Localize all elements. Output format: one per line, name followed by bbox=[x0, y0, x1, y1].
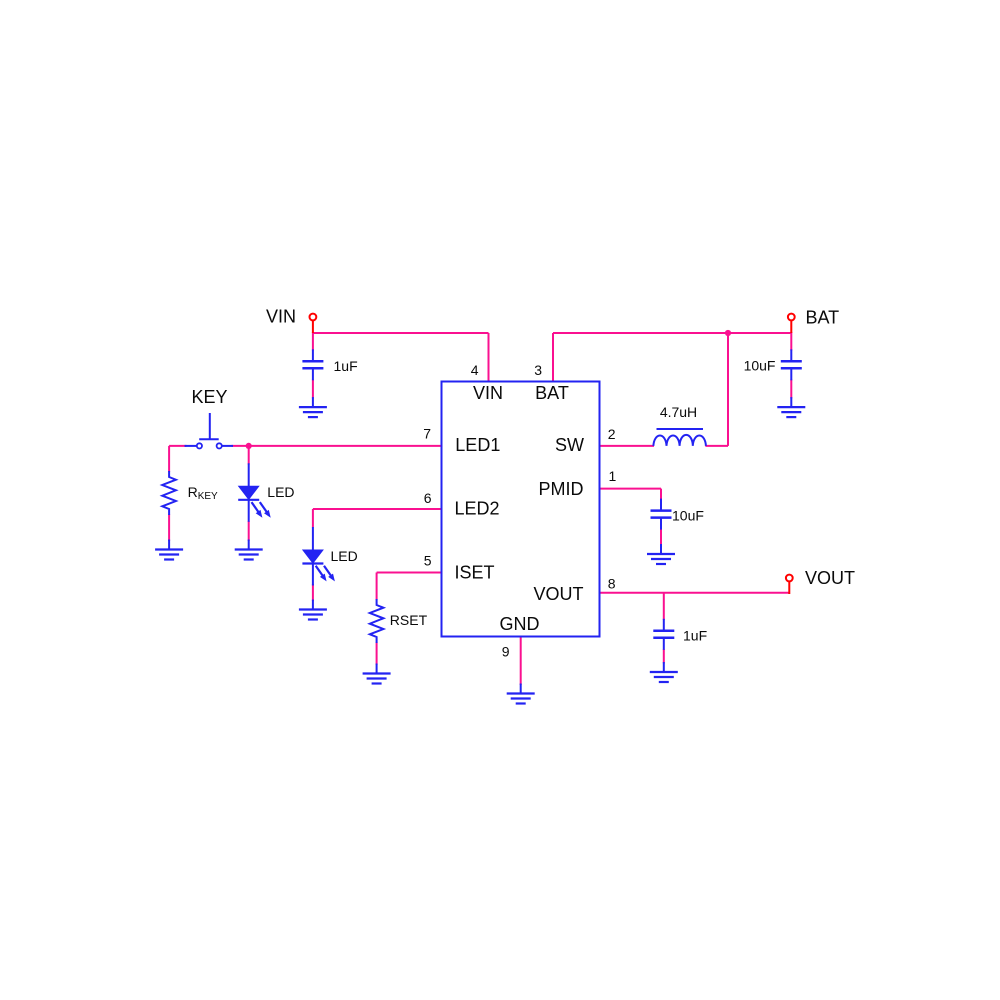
wire BAT junction to inductor (vertical) bbox=[727, 333, 729, 446]
wire C1 to ground (vertical) bbox=[312, 380, 314, 399]
svg-text:2: 2 bbox=[608, 426, 616, 442]
wire GND pin 9 vertical bbox=[520, 637, 522, 686]
ground (C4) bbox=[650, 662, 678, 682]
wire BAT horizontal bbox=[553, 332, 791, 334]
wire LED2 pin 6 horizontal bbox=[313, 508, 442, 510]
LED D1 bbox=[238, 463, 271, 522]
wire pin 6 to LED D2 (vertical) bbox=[312, 509, 314, 528]
junction node at KEY/LED1 bbox=[246, 443, 252, 449]
wire KEY to RKEY (vertical) bbox=[168, 446, 170, 472]
wire C4 to ground (vertical) bbox=[663, 649, 665, 664]
wire PMID to C3 (vertical) bbox=[660, 489, 662, 500]
svg-text:BAT: BAT bbox=[535, 383, 569, 403]
resistor RSET bbox=[370, 599, 384, 643]
svg-text:BAT: BAT bbox=[806, 308, 840, 328]
svg-text:LED2: LED2 bbox=[455, 499, 500, 519]
wire pin 4 vertical bbox=[488, 333, 490, 382]
wire VIN to C1 (vertical) bbox=[312, 332, 314, 351]
svg-text:LED: LED bbox=[331, 548, 358, 564]
LED D2 bbox=[302, 527, 335, 586]
op-amp U1 charger IC body bbox=[442, 382, 600, 637]
capacitor C3 10uF (PMID) bbox=[651, 499, 672, 530]
ground (RKEY) bbox=[155, 540, 183, 560]
ground (D2) bbox=[299, 600, 327, 620]
svg-text:PMID: PMID bbox=[539, 479, 584, 499]
node BAT terminal bbox=[788, 314, 795, 333]
svg-text:5: 5 bbox=[424, 553, 432, 569]
switch KEY pushbutton bbox=[185, 413, 234, 449]
svg-text:LED: LED bbox=[267, 484, 294, 500]
svg-text:6: 6 bbox=[424, 490, 432, 506]
svg-text:VIN: VIN bbox=[266, 306, 296, 326]
svg-text:1uF: 1uF bbox=[334, 358, 358, 374]
svg-text:4: 4 bbox=[471, 362, 479, 378]
wire VOUT pin 8 to terminal bbox=[600, 592, 790, 594]
ground (D1) bbox=[235, 540, 263, 560]
svg-text:4.7uH: 4.7uH bbox=[660, 404, 697, 420]
svg-text:KEY: KEY bbox=[191, 387, 227, 407]
wire LED D2 to ground (vertical) bbox=[312, 584, 314, 601]
svg-text:VOUT: VOUT bbox=[533, 584, 583, 604]
wire RSET to ground (vertical) bbox=[376, 642, 378, 665]
wire C3 to ground (vertical) bbox=[660, 529, 662, 546]
wire LED D1 to ground (vertical) bbox=[248, 521, 250, 541]
svg-text:GND: GND bbox=[500, 614, 540, 634]
wire VOUT to C4 (vertical) bbox=[663, 593, 665, 620]
wire BAT to C2 (vertical) bbox=[790, 332, 792, 351]
svg-text:9: 9 bbox=[502, 644, 510, 660]
capacitor C2 10uF (BAT) bbox=[781, 349, 802, 380]
wire RKEY to ground (vertical) bbox=[168, 514, 170, 541]
wire pin 3 vertical bbox=[552, 333, 554, 382]
inductor L1 4.7uH bbox=[653, 429, 706, 446]
svg-text:LED1: LED1 bbox=[455, 435, 500, 455]
wire switch to LED1 pin 7 bbox=[232, 445, 442, 447]
svg-text:1: 1 bbox=[609, 468, 617, 484]
svg-text:1uF: 1uF bbox=[683, 628, 707, 644]
wire ISET pin 5 horizontal bbox=[377, 572, 442, 574]
svg-text:RKEY: RKEY bbox=[188, 484, 218, 502]
svg-text:VOUT: VOUT bbox=[805, 568, 855, 588]
svg-text:VIN: VIN bbox=[473, 383, 503, 403]
wire VIN terminal to pin 4 (horizontal) bbox=[313, 332, 489, 334]
wire node to LED D1 (vertical) bbox=[248, 446, 250, 465]
capacitor C4 1uF (VOUT) bbox=[653, 619, 674, 650]
wire KEY node to switch bbox=[169, 445, 186, 447]
svg-text:8: 8 bbox=[608, 576, 616, 592]
wire pin 5 to RSET (vertical) bbox=[376, 573, 378, 601]
svg-text:SW: SW bbox=[555, 435, 584, 455]
svg-text:10uF: 10uF bbox=[672, 507, 704, 523]
wire C2 to ground (vertical) bbox=[790, 380, 792, 399]
wire SW pin 2 to inductor L1 bbox=[600, 445, 655, 447]
svg-text:ISET: ISET bbox=[455, 563, 495, 583]
svg-text:RSET: RSET bbox=[390, 612, 428, 628]
ground (C1) bbox=[299, 397, 327, 417]
svg-text:3: 3 bbox=[534, 362, 542, 378]
ground (RSET) bbox=[363, 664, 391, 684]
svg-text:7: 7 bbox=[423, 426, 431, 442]
capacitor C1 1uF (VIN) bbox=[302, 349, 323, 380]
svg-text:10uF: 10uF bbox=[744, 358, 776, 374]
ground (C2) bbox=[777, 397, 805, 417]
node VIN terminal bbox=[310, 314, 317, 333]
wire PMID pin 1 horizontal bbox=[600, 488, 662, 490]
ground (C3) bbox=[647, 544, 675, 564]
junction node at BAT bbox=[725, 330, 731, 336]
node VOUT terminal bbox=[786, 575, 793, 594]
ground (IC pin 9) bbox=[507, 684, 535, 704]
wire inductor L1 to BAT node bbox=[705, 445, 728, 447]
resistor RKEY bbox=[162, 471, 176, 515]
